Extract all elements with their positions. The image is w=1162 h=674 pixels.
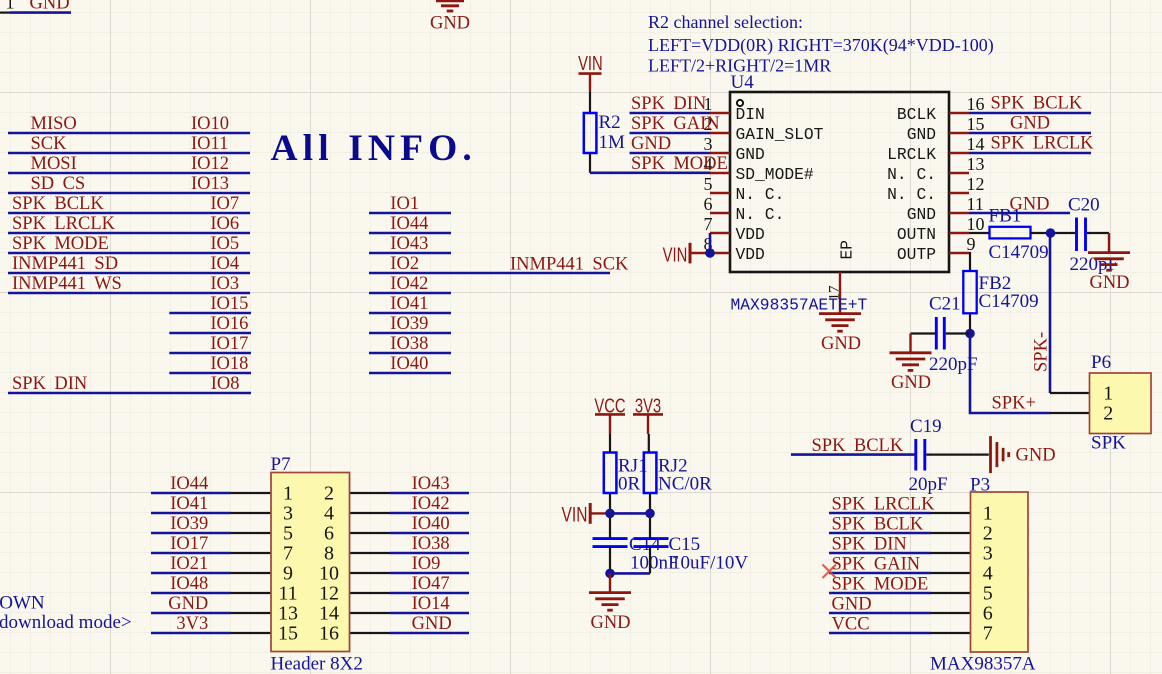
svg-text:SD_MODE#: SD_MODE# <box>736 165 814 184</box>
junction VIN node (RJ1) <box>605 509 615 519</box>
svg-text:download mode>: download mode> <box>0 612 132 633</box>
svg-text:GAIN_SLOT: GAIN_SLOT <box>736 125 824 144</box>
svg-text:P3: P3 <box>970 474 990 495</box>
svg-text:R2 channel selection:: R2 channel selection: <box>648 12 803 32</box>
svg-text:1: 1 <box>6 0 15 13</box>
svg-text:1: 1 <box>1103 383 1113 405</box>
resistor RJ1 <box>604 453 617 494</box>
wire IO44 (middle column) <box>369 232 451 235</box>
connector P3 pin 4 <box>931 572 971 574</box>
wire VIN to junction (bottom) <box>592 512 611 514</box>
capacitor C20 <box>1075 218 1078 252</box>
pin stub (off-sheet connector, top-left) <box>0 12 10 14</box>
svg-text:7: 7 <box>983 623 993 645</box>
svg-text:14: 14 <box>319 603 339 625</box>
connector P7 pin 5 <box>231 532 272 534</box>
svg-text:IO44: IO44 <box>170 474 208 494</box>
svg-text:IO8: IO8 <box>211 374 240 394</box>
svg-text:OUTN: OUTN <box>897 225 936 244</box>
svg-text:All INFO.: All INFO. <box>271 128 477 169</box>
svg-text:15: 15 <box>278 623 298 645</box>
svg-text:FB1: FB1 <box>989 206 1022 227</box>
svg-text:SPK BCLK: SPK BCLK <box>812 436 904 456</box>
connector P7 pin 9 <box>231 572 272 574</box>
junction SPK- node <box>1046 228 1056 238</box>
svg-text:Header 8X2: Header 8X2 <box>271 654 363 674</box>
svg-text:C14: C14 <box>629 534 661 555</box>
wire MISO <box>8 132 250 135</box>
svg-text:GND: GND <box>1089 273 1129 293</box>
svg-text:1M: 1M <box>599 132 626 153</box>
wire IO17 <box>169 352 251 355</box>
svg-text:SPK GAIN: SPK GAIN <box>631 114 720 134</box>
svg-text:MOSI: MOSI <box>31 154 77 174</box>
wire IO14 (P7 right) <box>390 612 469 615</box>
pin 12 U4 (right stub) <box>949 192 969 194</box>
wire 3V3 (P7 left) <box>151 632 231 635</box>
svg-text:12: 12 <box>967 174 985 194</box>
svg-text:C19: C19 <box>910 416 942 437</box>
svg-text:IO3: IO3 <box>210 274 239 294</box>
svg-text:IO40: IO40 <box>390 354 428 374</box>
wire SPK_DIN (U4 pin) <box>630 112 711 115</box>
pin 3 U4 (left stub) <box>710 152 730 154</box>
pin 16 U4 (right stub) <box>949 112 969 114</box>
svg-text:6: 6 <box>983 603 993 625</box>
svg-text:GND: GND <box>1016 445 1056 465</box>
svg-text:LEFT=VDD(0R) RIGHT=370K(94*VDD: LEFT=VDD(0R) RIGHT=370K(94*VDD-100) <box>648 35 994 56</box>
svg-text:SPK: SPK <box>1091 432 1126 453</box>
ground (right of C19, rotated) <box>989 436 992 473</box>
wire GND (top-left) <box>10 11 71 14</box>
wire SPK_BCLK (P3) <box>829 532 931 535</box>
svg-text:DIN: DIN <box>736 105 765 124</box>
wire SPK_BCLK <box>8 212 250 215</box>
op-amp U1 -- IC U4 body (MAX98357A) <box>730 92 949 272</box>
svg-text:6: 6 <box>324 523 334 545</box>
wire IO42 (middle column) <box>369 292 451 295</box>
svg-text:N. C.: N. C. <box>736 205 785 224</box>
svg-text:SPK LRCLK: SPK LRCLK <box>991 134 1095 154</box>
svg-text:SPK+: SPK+ <box>992 394 1036 414</box>
connector P6 pin 1 <box>1050 392 1090 394</box>
svg-text:2: 2 <box>983 523 993 545</box>
wire IO38 (middle column) <box>369 352 451 355</box>
svg-text:GND: GND <box>832 594 872 614</box>
svg-text:IO47: IO47 <box>412 574 450 594</box>
svg-text:IO42: IO42 <box>412 494 450 514</box>
wire IO1 (middle column) <box>369 212 451 215</box>
wire SCK <box>8 152 250 155</box>
svg-text:GND: GND <box>631 134 671 154</box>
wire IO44 (P7 left) <box>151 492 231 495</box>
no-ERC marker (red cross) at SPK_GAIN <box>823 565 837 579</box>
wire INMP441_WS <box>8 292 250 295</box>
svg-text:MISO: MISO <box>31 114 77 134</box>
wire C20 to ground <box>1087 232 1109 234</box>
svg-text:VIN: VIN <box>578 52 603 75</box>
ground (left of C21) <box>909 334 911 353</box>
svg-text:LRCLK: LRCLK <box>887 145 936 164</box>
svg-text:GND: GND <box>430 14 470 34</box>
wire INMP441_SD <box>8 272 250 275</box>
svg-text:12: 12 <box>319 583 339 605</box>
resistor R2 <box>584 113 597 153</box>
svg-text:IO12: IO12 <box>191 154 229 174</box>
wire IO9 (P7 right) <box>390 572 469 575</box>
svg-text:1: 1 <box>983 503 993 525</box>
svg-text:13: 13 <box>278 603 298 625</box>
resistor RJ2 <box>644 453 657 494</box>
ground (below C14/C15) <box>609 573 611 592</box>
svg-text:14: 14 <box>967 134 985 154</box>
connector P3 pin 2 <box>931 532 971 534</box>
svg-text:5: 5 <box>283 523 293 545</box>
svg-text:IO38: IO38 <box>390 334 428 354</box>
wire IO40 (P7 right) <box>390 532 469 535</box>
wire SPK_LRCLK <box>8 232 250 235</box>
svg-text:5: 5 <box>983 583 993 605</box>
svg-text:IO1: IO1 <box>390 194 419 214</box>
wire VIN node horizontal <box>610 512 650 515</box>
connector P7 pin 15 <box>231 632 272 634</box>
pin 2 U4 (left stub) <box>710 132 730 134</box>
svg-text:3: 3 <box>704 134 713 154</box>
wire SPK_GAIN (U4 pin) <box>630 132 711 135</box>
wire IO41 (P7 left) <box>151 512 231 515</box>
connector P7 pin 8 <box>350 552 391 554</box>
wire C15 to GND junction <box>649 547 651 573</box>
connector P7 pin 4 <box>350 512 391 514</box>
svg-text:VIN: VIN <box>663 243 688 266</box>
connector P7 pin 2 <box>350 492 391 494</box>
svg-text:MAX98357AETE+T: MAX98357AETE+T <box>731 296 868 315</box>
svg-text:IO39: IO39 <box>170 514 208 534</box>
svg-text:IO9: IO9 <box>412 554 441 574</box>
wire U4 pin10 to FB1 <box>969 232 990 234</box>
wire RJ1 to C14 <box>609 493 611 538</box>
wire 3V3 to RJ2 <box>648 434 650 453</box>
svg-text:VIN: VIN <box>562 502 588 526</box>
pin 11 U4 (right stub) <box>949 212 969 214</box>
svg-text:7: 7 <box>283 543 293 565</box>
wire IO16 <box>169 332 251 335</box>
svg-text:N. C.: N. C. <box>887 165 936 184</box>
pin 7 U4 (left stub) <box>710 232 730 234</box>
wire IO18 <box>169 372 251 375</box>
svg-text:IO4: IO4 <box>210 254 239 274</box>
wire VIN to U4 pin 8 <box>690 252 710 254</box>
pin 1 U4 (left stub) <box>710 112 730 114</box>
wire IO2 (middle column) <box>369 272 610 275</box>
svg-text:4: 4 <box>983 563 993 585</box>
connector P7 pin 10 <box>350 572 391 574</box>
wire IO15 <box>169 312 251 315</box>
wire IO40 (middle column) <box>369 372 451 375</box>
connector P7 pin 12 <box>350 592 391 594</box>
svg-text:P6: P6 <box>1091 352 1111 373</box>
svg-text:3: 3 <box>983 543 993 565</box>
svg-text:P7: P7 <box>271 454 291 475</box>
svg-text:GND: GND <box>907 125 936 144</box>
ground (below U4 EP) <box>819 312 861 315</box>
svg-text:SPK DIN: SPK DIN <box>631 94 706 114</box>
connector P3 pin 1 <box>931 512 971 514</box>
svg-text:16: 16 <box>319 623 339 645</box>
svg-text:IO14: IO14 <box>412 594 450 614</box>
wire SPK_MODE <box>8 252 250 255</box>
wire R2 to SPK_MODE <box>589 153 591 173</box>
ground (right of C20) <box>1108 233 1110 253</box>
svg-text:IO43: IO43 <box>412 474 450 494</box>
svg-text:SCK: SCK <box>31 134 68 154</box>
svg-text:IO13: IO13 <box>191 174 229 194</box>
pin-1 indicator dot U4 <box>737 100 743 106</box>
wire GND (P7 right) <box>390 632 469 635</box>
svg-text:SPK GAIN: SPK GAIN <box>832 554 921 574</box>
wire RJ2 to C15 <box>649 493 651 538</box>
svg-text:9: 9 <box>967 234 976 254</box>
svg-text:N. C.: N. C. <box>736 185 785 204</box>
connector P7 pin 14 <box>350 612 391 614</box>
svg-text:11: 11 <box>278 583 297 605</box>
svg-text:IO39: IO39 <box>390 314 428 334</box>
svg-text:10uF/10V: 10uF/10V <box>671 553 748 574</box>
wire SPK_BCLK to C19 <box>791 453 914 456</box>
wire VCC to RJ1 <box>609 434 611 453</box>
pin 5 U4 (left stub) <box>710 192 730 194</box>
svg-text:MAX98357A: MAX98357A <box>930 653 1036 674</box>
connector P3 pin 5 <box>931 592 971 594</box>
svg-text:SPK-: SPK- <box>1032 332 1052 372</box>
connector P6 body <box>1090 373 1152 434</box>
svg-text:SPK LRCLK: SPK LRCLK <box>832 494 936 514</box>
wire GND (P7 left) <box>151 612 231 615</box>
connector P7 pin 13 <box>231 612 272 614</box>
connector P7 pin 1 <box>231 492 272 494</box>
svg-text:GND: GND <box>1010 114 1050 134</box>
svg-text:2: 2 <box>1103 403 1113 425</box>
wire SPK_LRCLK (P3) <box>829 512 931 515</box>
wire IO38 (P7 right) <box>390 552 469 555</box>
connector P3 pin 3 <box>931 552 971 554</box>
junction VIN node (RJ2) <box>645 509 655 519</box>
svg-text:IO41: IO41 <box>390 294 428 314</box>
svg-text:IO40: IO40 <box>412 514 450 534</box>
wire IO42 (P7 right) <box>390 512 469 515</box>
svg-text:SPK MODE: SPK MODE <box>832 574 929 594</box>
svg-text:C14709: C14709 <box>989 242 1049 263</box>
svg-text:GND: GND <box>168 594 208 614</box>
connector P3 body <box>971 492 1029 652</box>
wire SPK- vertical <box>1049 233 1052 393</box>
wire GND (U4 pin) <box>630 152 711 155</box>
wire C21 to ground <box>911 332 936 334</box>
svg-text:SPK DIN: SPK DIN <box>12 374 87 394</box>
svg-text:EP: EP <box>838 240 857 260</box>
svg-text:U4: U4 <box>731 72 755 93</box>
svg-text:IO2: IO2 <box>390 254 419 274</box>
svg-text:7: 7 <box>704 214 713 234</box>
svg-text:10: 10 <box>319 563 339 585</box>
svg-text:GND: GND <box>412 614 452 634</box>
svg-text:SPK BCLK: SPK BCLK <box>991 94 1083 114</box>
pin 14 U4 (right stub) <box>949 152 969 154</box>
svg-text:13: 13 <box>967 154 985 174</box>
wire IO47 (P7 right) <box>390 592 469 595</box>
svg-text:INMP441 SD: INMP441 SD <box>12 254 118 274</box>
wire SPK_DIN <box>8 392 251 395</box>
svg-text:IO21: IO21 <box>170 554 208 574</box>
svg-text:GND: GND <box>30 0 70 14</box>
connector P7 pin 11 <box>231 592 272 594</box>
svg-text:4: 4 <box>324 503 334 525</box>
svg-text:10: 10 <box>967 214 985 234</box>
svg-text:VDD: VDD <box>736 225 765 244</box>
svg-text:NC/0R: NC/0R <box>658 473 712 494</box>
junction GND node <box>605 569 615 579</box>
svg-text:C15: C15 <box>669 534 701 555</box>
svg-text:8: 8 <box>324 543 334 565</box>
svg-text:IO11: IO11 <box>191 134 228 154</box>
pin 9 U4 (right stub) <box>949 252 969 254</box>
svg-text:IO16: IO16 <box>210 314 248 334</box>
svg-text:OUTP: OUTP <box>897 245 936 264</box>
svg-text:IO7: IO7 <box>210 194 239 214</box>
svg-text:3: 3 <box>283 503 293 525</box>
svg-text:IO42: IO42 <box>390 274 428 294</box>
wire FB1 to C20 <box>1031 232 1076 234</box>
svg-text:GND: GND <box>736 145 765 164</box>
connector P7 pin 3 <box>231 512 272 514</box>
wire IO39 (middle column) <box>369 332 451 335</box>
svg-text:IO38: IO38 <box>412 534 450 554</box>
svg-text:20pF: 20pF <box>909 474 948 495</box>
wire SPK_DIN (P3) <box>829 552 931 555</box>
wire C19 to ground <box>926 454 989 456</box>
wire FB2 to junction <box>969 313 971 333</box>
capacitor C21 <box>935 317 938 350</box>
svg-text:SPK DIN: SPK DIN <box>832 534 907 554</box>
wire VIN to R2 <box>589 92 591 113</box>
ferrite bead FB1 <box>990 227 1031 239</box>
wire IO17 (P7 left) <box>151 552 231 555</box>
svg-text:IO43: IO43 <box>390 234 428 254</box>
connector P3 pin 6 <box>931 612 971 614</box>
svg-text:C20: C20 <box>1068 195 1100 216</box>
svg-text:SPK BCLK: SPK BCLK <box>12 194 104 214</box>
wire IO43 (P7 right) <box>390 492 469 495</box>
svg-text:INMP441 WS: INMP441 WS <box>12 274 122 294</box>
svg-text:1: 1 <box>283 483 293 505</box>
svg-text:SPK LRCLK: SPK LRCLK <box>12 214 116 234</box>
capacitor C14 <box>593 537 628 540</box>
svg-text:11: 11 <box>967 194 984 214</box>
junction at U4 pin 8 <box>705 248 715 258</box>
svg-text:SPK MODE: SPK MODE <box>631 154 728 174</box>
connector P7 pin 6 <box>350 532 391 534</box>
capacitor C19 <box>914 439 917 471</box>
wire SD_CS <box>8 192 250 195</box>
connector P7 pin 16 <box>350 632 391 634</box>
wire IO21 (P7 left) <box>151 572 231 575</box>
junction SPK+ node <box>965 329 975 339</box>
wire U4 pin9 to FB2 <box>969 253 970 271</box>
wire MOSI <box>8 172 250 175</box>
svg-text:6: 6 <box>704 194 713 214</box>
wire SPK_MODE (U4 pin 4) <box>590 172 710 175</box>
svg-text:9: 9 <box>283 563 293 585</box>
wire GND (P3) <box>829 612 931 615</box>
svg-text:IO44: IO44 <box>390 214 428 234</box>
svg-text:IO18: IO18 <box>210 354 248 374</box>
wire IO48 (P7 left) <box>151 592 231 595</box>
wire C14 to GND junction <box>609 547 611 573</box>
ground (top, cut off) <box>436 0 464 2</box>
wire C21 to junction <box>946 332 969 334</box>
wire IO39 (P7 left) <box>151 532 231 535</box>
ferrite bead FB2 <box>963 271 976 313</box>
wire SPK_MODE (P3) <box>829 592 931 595</box>
svg-text:IO5: IO5 <box>210 234 239 254</box>
svg-text:SPK MODE: SPK MODE <box>12 234 109 254</box>
svg-text:15: 15 <box>967 114 985 134</box>
wire IO43 (middle column) <box>369 252 451 255</box>
svg-text:C21: C21 <box>929 294 961 315</box>
svg-text:3V3: 3V3 <box>176 614 208 634</box>
wire SPK_GAIN (P3) <box>829 572 931 575</box>
wire SPK_LRCLK (U4 pin 14) <box>969 152 1091 155</box>
svg-text:GND: GND <box>590 613 630 633</box>
svg-text:IO15: IO15 <box>210 294 248 314</box>
svg-text:BCLK: BCLK <box>897 105 936 124</box>
pin 15 U4 (right stub) <box>949 132 969 134</box>
svg-text:GND: GND <box>821 334 861 354</box>
svg-text:VCC: VCC <box>832 614 870 634</box>
svg-text:SPK BCLK: SPK BCLK <box>832 514 924 534</box>
svg-text:SD CS: SD CS <box>31 174 86 194</box>
connector P3 pin 7 <box>931 632 971 634</box>
connector P7 body <box>271 473 350 652</box>
svg-text:5: 5 <box>704 174 713 194</box>
connector P7 pin 7 <box>231 552 272 554</box>
pin 4 U4 (left stub) <box>710 172 730 174</box>
pin 8 U4 (left stub) <box>710 252 730 254</box>
svg-text:C14709: C14709 <box>979 291 1039 312</box>
wire SPK_BCLK (U4 pin 16) <box>969 112 1091 115</box>
wire IO41 (middle column) <box>369 312 451 315</box>
svg-text:IO17: IO17 <box>210 334 248 354</box>
capacitor C15 <box>634 537 669 540</box>
svg-text:GND: GND <box>907 205 936 224</box>
pin 13 U4 (right stub) <box>949 172 969 174</box>
pin 10 U4 (right stub) <box>949 232 969 234</box>
pin EP U4 (bottom stub) <box>839 272 841 314</box>
wire VCC (P3) <box>829 632 931 635</box>
wire GND (U4 pin 15) <box>969 132 1091 135</box>
pin 6 U4 (left stub) <box>710 212 730 214</box>
svg-text:IO6: IO6 <box>210 214 239 234</box>
svg-text:R2: R2 <box>599 112 621 133</box>
svg-text:DOWN: DOWN <box>0 593 45 614</box>
svg-text:VDD: VDD <box>736 245 765 264</box>
connector P6 pin 2 <box>1050 412 1090 414</box>
wire U4 pin7 to pin8 junction <box>709 233 712 253</box>
svg-text:IO48: IO48 <box>170 574 208 594</box>
svg-text:16: 16 <box>967 94 985 114</box>
svg-text:IO17: IO17 <box>170 534 208 554</box>
svg-text:2: 2 <box>324 483 334 505</box>
